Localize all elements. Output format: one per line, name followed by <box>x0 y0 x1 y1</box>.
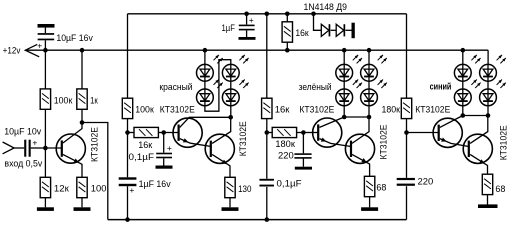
capacitor C4 0,1µF <box>163 133 165 153</box>
led VD7 <box>361 64 378 81</box>
resistor R9 16к (green feed) <box>266 14 268 98</box>
wire red string2 bottom <box>230 106 232 118</box>
node A green <box>265 130 270 135</box>
capacitor C3 1µF <box>246 14 248 25</box>
led VD2 <box>197 89 214 106</box>
wire red string1 mid <box>204 81 206 89</box>
led VD10 arrows <box>471 80 476 85</box>
wire Q6 collector <box>440 116 463 128</box>
node input arrow <box>3 142 15 154</box>
wire Q4 base <box>303 132 318 134</box>
svg-text:КТ3102Е: КТ3102Е <box>299 105 334 116</box>
svg-text:16к: 16к <box>275 104 290 115</box>
resistor R4 100 <box>77 177 87 197</box>
led VD2 arrows <box>214 80 219 85</box>
wire bias rail <box>128 13 407 15</box>
led VD8 <box>361 89 378 106</box>
wire Q6 base <box>407 132 439 134</box>
wire cap to base node <box>31 147 46 149</box>
wire Q1 base <box>45 147 62 149</box>
svg-text:68: 68 <box>495 184 505 195</box>
wire red string2 mid <box>230 81 232 89</box>
wire Q6 emitter <box>440 139 468 147</box>
wire red string1 top <box>204 50 206 64</box>
transistor Q6 КТ3102Е (blue 1st) <box>433 118 462 147</box>
wire green string1 bottom <box>343 106 345 117</box>
svg-text:КТ3102Е: КТ3102Е <box>89 127 100 162</box>
resistor R6 100к (red feed) <box>122 98 132 118</box>
diode D2 1N4148 <box>336 24 344 36</box>
wire collector to bus <box>82 123 108 220</box>
wire to diodes <box>314 14 322 31</box>
ground (under R3) <box>37 207 54 211</box>
node junction C1/rail <box>43 48 48 53</box>
node junction R5/bias <box>285 12 290 17</box>
svg-text:0,1µF: 0,1µF <box>277 179 302 190</box>
node junction C5/bus <box>125 217 130 222</box>
svg-text:КТ3102Е: КТ3102Е <box>378 125 389 160</box>
wire Q3 emitter <box>212 154 230 177</box>
ground (under R8) <box>222 207 239 211</box>
wire Q4 emitter <box>320 139 351 147</box>
led VD7 arrows <box>378 55 383 60</box>
led VD4 <box>222 89 239 106</box>
svg-text:красный: красный <box>159 82 192 92</box>
wire Q2 collector <box>180 117 231 127</box>
led VD3 <box>222 64 239 81</box>
svg-text:100к: 100к <box>54 95 73 106</box>
node red LED junction <box>228 115 233 120</box>
wire Q5 collector <box>352 117 369 143</box>
svg-text:12к: 12к <box>54 184 70 195</box>
node base Q1 junction <box>43 146 48 151</box>
node junction R5/rail <box>285 48 290 53</box>
wire green string1 mid <box>343 81 345 89</box>
svg-text:130: 130 <box>238 184 251 195</box>
transistor Q3 КТ3102Е (red 2nd) <box>205 134 234 163</box>
led VD4 arrows <box>239 80 244 85</box>
node junction diodes/bias <box>311 12 316 17</box>
capacitor C1 10µF 16v <box>44 28 46 33</box>
svg-text:КТ3102Е: КТ3102Е <box>238 121 249 156</box>
node B green <box>301 130 306 135</box>
svg-text:1N4148 Д9: 1N4148 Д9 <box>304 2 348 13</box>
diode D1 1N4148 <box>321 24 329 36</box>
resistor R5 16к (bias feed) <box>286 14 288 22</box>
wire Q1 emitter <box>63 154 82 177</box>
led VD11 arrows <box>497 55 502 60</box>
svg-text:+: + <box>167 143 172 153</box>
wire Q7 collector <box>470 116 488 144</box>
node junction blue LED1/rail <box>461 48 466 53</box>
svg-text:180к: 180к <box>382 104 401 115</box>
node A red <box>125 130 130 135</box>
node green LED junction right <box>367 115 372 120</box>
transistor Q5 КТ3102Е (green 2nd) <box>345 134 374 163</box>
svg-text:10µF 16v: 10µF 16v <box>56 33 93 44</box>
led VD3 arrows <box>239 55 244 60</box>
ground (under C3) <box>239 37 256 40</box>
wire green string1 top <box>343 50 345 64</box>
svg-text:100к: 100к <box>135 104 154 115</box>
ground (under R13) <box>478 204 498 208</box>
resistor R7 16к <box>128 132 135 134</box>
svg-text:+: + <box>32 137 37 147</box>
node junction 1k/rail <box>80 48 85 53</box>
wire green string2 bottom <box>368 106 370 117</box>
wire D2-ground <box>346 29 352 31</box>
led VD11 <box>480 64 497 81</box>
resistor R10 180к <box>267 132 272 134</box>
resistor R8 130 <box>225 177 235 197</box>
transistor Q1 КТ3102Е <box>56 134 85 163</box>
svg-text:КТ3102Е: КТ3102Е <box>160 104 195 115</box>
led VD8 arrows <box>378 80 383 85</box>
ground (under C4) <box>156 166 173 169</box>
resistor R12 180к (blue feed) <box>401 98 411 118</box>
led VD6 arrows <box>353 80 358 85</box>
wire Q4 collector <box>320 117 345 127</box>
capacitor C6 220 <box>302 133 304 154</box>
svg-text:16к: 16к <box>138 140 153 151</box>
svg-text:синий: синий <box>430 82 452 92</box>
node blue LED junction right <box>486 113 491 118</box>
node A blue <box>404 130 409 135</box>
svg-text:+: + <box>37 41 42 51</box>
led VD12 <box>480 89 497 106</box>
capacitor C5 1µF 16v (red coupling) <box>127 133 129 178</box>
capacitor C2 10µF 10v <box>24 140 26 157</box>
resistor R13 68 <box>482 174 492 194</box>
wire blue string1 mid <box>462 81 464 89</box>
capacitor C8 220 (blue coupling) <box>406 133 408 178</box>
ground (above C1) <box>38 24 55 28</box>
svg-text:+: + <box>249 15 254 25</box>
wire green LED bottoms join <box>344 116 369 118</box>
node Q1 collector junction <box>80 120 85 125</box>
resistor R2 1к <box>81 50 83 89</box>
wire blue LED bottoms join <box>463 115 488 117</box>
wire blue string2 mid <box>487 81 489 89</box>
wire Q5 emitter <box>352 154 370 176</box>
led VD1 <box>197 64 214 81</box>
wire Q3 collector <box>212 117 231 143</box>
node junction green LED2/rail <box>367 48 372 53</box>
resistor R11 68 <box>364 176 374 196</box>
led VD5 arrows <box>353 55 358 60</box>
ground (under R4) <box>74 207 91 211</box>
svg-text:220: 220 <box>418 177 434 188</box>
node junction C7/bus <box>265 217 270 222</box>
svg-text:+: + <box>129 185 134 195</box>
svg-text:1µF 16v: 1µF 16v <box>139 179 171 190</box>
node junction C3/bias <box>244 12 249 17</box>
wire +12v rail <box>25 49 488 51</box>
svg-text:1к: 1к <box>90 95 98 106</box>
svg-text:10µF 10v: 10µF 10v <box>4 126 41 137</box>
svg-text:зелёный: зелёный <box>299 82 332 92</box>
svg-text:вход 0,5v: вход 0,5v <box>4 158 42 169</box>
ground (under R11) <box>361 207 378 211</box>
node green LED junction left <box>342 115 347 120</box>
transistor Q4 КТ3102Е (green 1st) <box>313 118 342 147</box>
led VD6 <box>336 89 353 106</box>
svg-text:КТ3102Е: КТ3102Е <box>415 105 450 116</box>
node B red <box>161 130 166 135</box>
svg-text:+12v: +12v <box>3 45 21 56</box>
ground (under C6) <box>295 167 312 170</box>
wire Q2 emitter <box>180 139 211 147</box>
node junction green LED1/rail <box>342 48 347 53</box>
led VD1 arrows <box>214 55 219 60</box>
wire Q7 emitter <box>470 154 487 174</box>
wire signal bus <box>108 219 407 221</box>
svg-text:1µF: 1µF <box>222 23 236 34</box>
wire Q1 collector <box>63 123 82 144</box>
led VD12 arrows <box>497 80 502 85</box>
led VD9 arrows <box>471 55 476 60</box>
node blue LED junction left <box>461 113 466 118</box>
led VD10 <box>454 89 471 106</box>
capacitor C7 0,1µF (green coupling) <box>266 133 268 179</box>
node junction green feed/bias <box>265 12 270 17</box>
svg-text:180к: 180к <box>275 139 295 150</box>
wire D1-D2 <box>331 29 337 31</box>
transistor Q2 КТ3102Е (red 1st) <box>173 118 202 147</box>
transistor Q7 КТ3102Е (blue 2nd) <box>463 134 492 163</box>
wire bias left drop <box>127 14 129 98</box>
wire blue string1 top <box>462 50 464 64</box>
svg-text:16к: 16к <box>295 28 309 39</box>
led VD9 <box>454 64 471 81</box>
led VD5 <box>336 64 353 81</box>
wire rail end to blue string2 <box>487 50 489 64</box>
wire Q2 base <box>164 132 179 134</box>
svg-text:100: 100 <box>91 184 107 195</box>
resistor R3 12к <box>44 148 46 177</box>
svg-text:220: 220 <box>278 150 294 161</box>
resistor R1 100к <box>44 50 46 89</box>
svg-text:68: 68 <box>376 183 386 194</box>
ground (diode end bar) <box>352 23 355 39</box>
wire blue string2 bottom <box>487 106 489 116</box>
node junction red LED/rail <box>203 48 208 53</box>
svg-text:0,1µF: 0,1µF <box>129 152 155 163</box>
wire green string2 top <box>368 50 370 64</box>
wire bias right drop <box>406 14 408 98</box>
wire green string2 mid <box>368 81 370 89</box>
wire red series bracket <box>205 60 231 111</box>
wire blue string1 bottom <box>462 106 464 116</box>
svg-text:КТ3102Е: КТ3102Е <box>498 125 509 160</box>
